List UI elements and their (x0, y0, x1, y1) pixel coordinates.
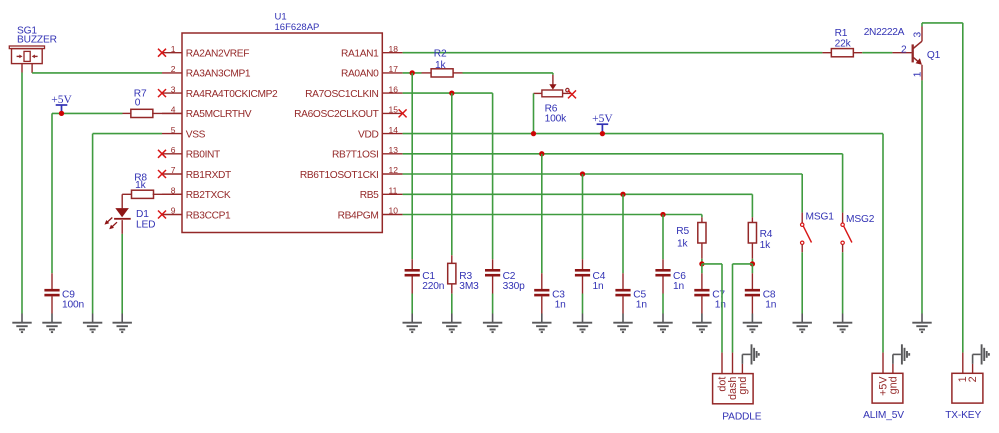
svg-text:gnd: gnd (887, 376, 899, 394)
svg-text:1n: 1n (555, 299, 566, 310)
svg-text:ALIM_5V: ALIM_5V (863, 410, 904, 421)
svg-text:MSG1: MSG1 (806, 212, 835, 223)
svg-text:10: 10 (389, 206, 399, 216)
svg-text:gnd: gnd (737, 377, 749, 395)
svg-text:RB4PGM: RB4PGM (338, 210, 379, 221)
svg-text:RA3AN3CMP1: RA3AN3CMP1 (186, 69, 251, 80)
svg-text:VSS: VSS (186, 129, 206, 140)
svg-text:2: 2 (901, 44, 907, 55)
svg-text:14: 14 (389, 125, 399, 135)
svg-text:1k: 1k (435, 60, 447, 71)
svg-text:3M3: 3M3 (459, 281, 479, 292)
svg-text:1k: 1k (760, 240, 772, 251)
svg-text:1n: 1n (715, 299, 726, 310)
svg-text:R5: R5 (676, 226, 689, 237)
svg-text:Q1: Q1 (927, 50, 941, 61)
svg-text:RA6OSC2CLKOUT: RA6OSC2CLKOUT (294, 109, 378, 120)
svg-text:22k: 22k (835, 39, 852, 50)
svg-text:+5V: +5V (592, 113, 613, 125)
svg-text:12: 12 (389, 165, 399, 175)
svg-text:220n: 220n (422, 281, 444, 292)
svg-text:VDD: VDD (358, 129, 378, 140)
svg-text:1n: 1n (636, 299, 647, 310)
svg-text:1n: 1n (593, 281, 604, 292)
svg-text:R1: R1 (835, 28, 848, 39)
svg-text:2: 2 (171, 64, 176, 74)
svg-text:RA5MCLRTHV: RA5MCLRTHV (186, 109, 252, 120)
svg-text:3: 3 (171, 84, 176, 94)
svg-text:RB3CCP1: RB3CCP1 (186, 210, 231, 221)
svg-text:2: 2 (967, 376, 979, 382)
svg-text:+5V: +5V (51, 94, 72, 106)
svg-text:1k: 1k (135, 180, 147, 191)
svg-text:RA4RA4T0CKICMP2: RA4RA4T0CKICMP2 (186, 89, 278, 100)
svg-text:RA7OSC1CLKIN: RA7OSC1CLKIN (305, 89, 378, 100)
svg-text:15: 15 (389, 105, 399, 115)
svg-text:16: 16 (389, 84, 399, 94)
svg-text:0: 0 (135, 97, 141, 108)
svg-text:11: 11 (389, 186, 398, 196)
svg-text:1n: 1n (673, 281, 684, 292)
svg-text:18: 18 (389, 44, 399, 54)
svg-text:16F628AP: 16F628AP (275, 22, 320, 33)
svg-text:MSG2: MSG2 (846, 214, 875, 225)
svg-text:1n: 1n (765, 299, 776, 310)
svg-text:TX-KEY: TX-KEY (945, 410, 981, 421)
svg-text:RB6T1OSOT1CKI: RB6T1OSOT1CKI (300, 170, 379, 181)
svg-text:2N2222A: 2N2222A (864, 27, 905, 38)
svg-text:330p: 330p (503, 281, 526, 292)
svg-text:RA2AN2VREF: RA2AN2VREF (186, 49, 249, 60)
svg-text:U1: U1 (275, 12, 287, 23)
svg-text:RB1RXDT: RB1RXDT (186, 170, 231, 181)
svg-text:D1: D1 (136, 209, 149, 220)
svg-text:13: 13 (389, 145, 399, 155)
svg-text:9: 9 (171, 206, 176, 216)
svg-text:100k: 100k (545, 114, 568, 125)
svg-text:RB2TXCK: RB2TXCK (186, 190, 231, 201)
svg-text:3: 3 (912, 32, 923, 38)
svg-text:17: 17 (389, 64, 399, 74)
svg-text:1: 1 (171, 44, 176, 54)
svg-text:R2: R2 (434, 49, 447, 60)
svg-text:RB7T1OSI: RB7T1OSI (332, 150, 378, 161)
svg-text:1k: 1k (677, 238, 689, 249)
svg-text:R4: R4 (760, 229, 773, 240)
svg-text:BUZZER: BUZZER (17, 35, 57, 46)
svg-text:1: 1 (912, 71, 923, 77)
svg-text:RB0INT: RB0INT (186, 150, 220, 161)
svg-text:RA0AN0: RA0AN0 (341, 69, 379, 80)
svg-text:PADDLE: PADDLE (722, 411, 761, 422)
svg-text:6: 6 (171, 145, 176, 155)
svg-text:LED: LED (136, 220, 155, 231)
svg-text:RA1AN1: RA1AN1 (341, 49, 379, 60)
svg-text:5: 5 (171, 125, 176, 135)
svg-text:RB5: RB5 (360, 190, 379, 201)
svg-text:7: 7 (171, 165, 176, 175)
svg-text:100n: 100n (62, 299, 84, 310)
